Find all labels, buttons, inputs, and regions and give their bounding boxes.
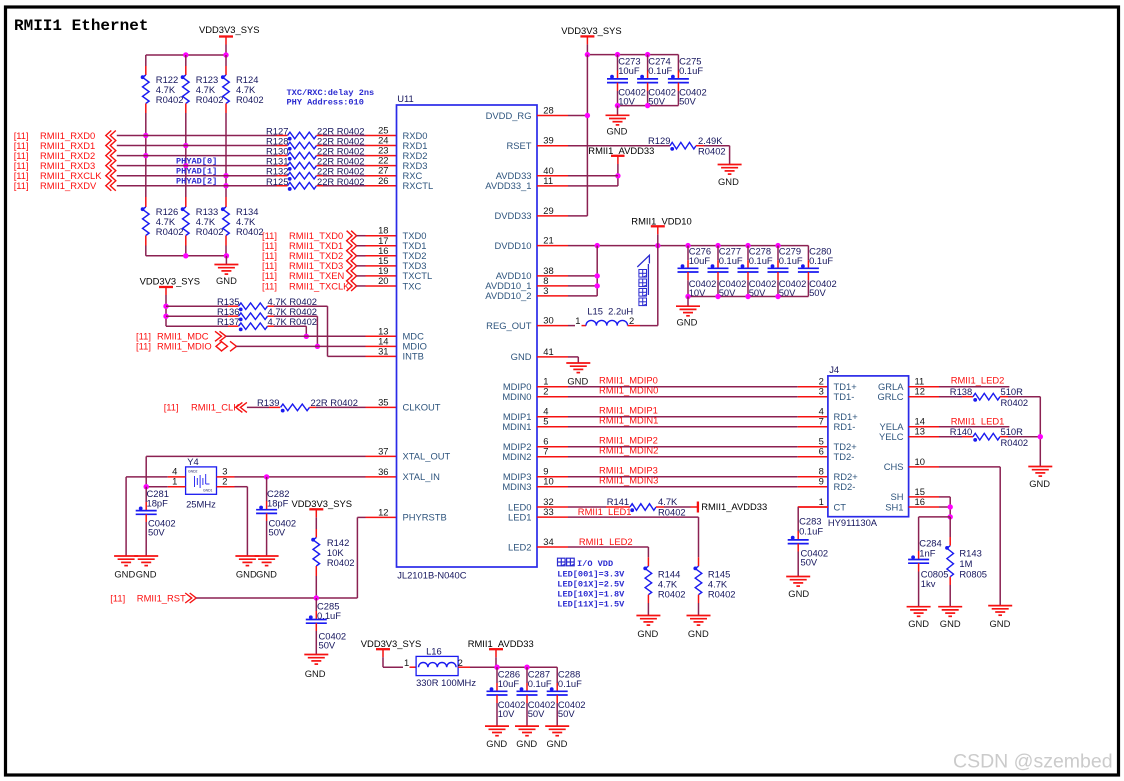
svg-text:MDIN2: MDIN2 — [502, 451, 531, 462]
svg-text:22R R0402: 22R R0402 — [317, 176, 364, 187]
svg-text:GND: GND — [940, 618, 961, 629]
wire LED gnd riser — [1039, 397, 1041, 467]
svg-text:50V: 50V — [319, 640, 336, 651]
ground GND (R129) — [729, 146, 731, 165]
svg-text:GND: GND — [637, 628, 658, 639]
pin 5 J4 stub — [798, 446, 828, 448]
svg-text:2: 2 — [543, 386, 548, 397]
pin 2 Y4 stub — [217, 486, 235, 488]
pin 6 J4 stub — [798, 456, 828, 458]
resistor R135 4.7K — [166, 305, 228, 307]
svg-text:20: 20 — [378, 275, 388, 286]
capacitor C277 0.1uF — [717, 246, 719, 261]
svg-text:AVDD33_1: AVDD33_1 — [485, 180, 531, 191]
svg-text:37: 37 — [378, 445, 388, 456]
inductor L15 2.2uH — [568, 325, 575, 327]
svg-text:330R 100MHz: 330R 100MHz — [416, 677, 476, 688]
svg-text:[11]: [11] — [136, 341, 151, 352]
svg-text:GND: GND — [718, 176, 739, 187]
svg-text:25MHz: 25MHz — [186, 499, 216, 510]
svg-text:INTB: INTB — [403, 351, 424, 362]
svg-text:0.1uF: 0.1uF — [317, 610, 341, 621]
svg-text:GND: GND — [256, 569, 277, 580]
svg-text:3: 3 — [543, 285, 548, 296]
svg-text:R0805: R0805 — [959, 569, 987, 580]
svg-text:MDIN1: MDIN1 — [502, 421, 531, 432]
svg-text:RMII1_VDD10: RMII1_VDD10 — [631, 216, 691, 227]
node DVDD10 junctions — [595, 243, 600, 248]
svg-text:XTAL_OUT: XTAL_OUT — [403, 451, 451, 462]
resistor R127 22R — [277, 135, 288, 137]
capacitor C279 0.1uF — [777, 246, 779, 261]
wire RMII1_RXD0 — [117, 135, 277, 137]
svg-text:RMII1_MDIN1: RMII1_MDIN1 — [599, 415, 658, 426]
ground GND (Y4 pin4) — [114, 555, 138, 557]
svg-text:11: 11 — [543, 175, 553, 186]
svg-text:GND: GND — [607, 126, 628, 137]
ground GND (R145) — [687, 615, 711, 617]
svg-text:LED[01X]=2.5V: LED[01X]=2.5V — [557, 579, 625, 589]
svg-text:[11]: [11] — [14, 180, 29, 191]
pin 13 MDC stub — [366, 335, 397, 337]
pin 26 RXD5 stub — [366, 185, 397, 187]
svg-text:22R R0402: 22R R0402 — [311, 397, 358, 408]
svg-text:PHYAD[1]: PHYAD[1] — [176, 166, 217, 176]
svg-text:VDD3V3_SYS: VDD3V3_SYS — [292, 498, 352, 509]
svg-text:35: 35 — [378, 396, 388, 407]
svg-text:41: 41 — [543, 346, 553, 357]
svg-text:PHYAD[0]: PHYAD[0] — [176, 156, 217, 166]
svg-text:YELC: YELC — [879, 431, 904, 442]
svg-text:RMII1_MDIN3: RMII1_MDIN3 — [599, 475, 658, 486]
port RMII1_MDC arrow — [220, 331, 227, 341]
svg-text:18pF: 18pF — [147, 498, 169, 509]
ground GND (C282) — [255, 555, 279, 557]
svg-text:29: 29 — [543, 205, 553, 216]
ground GND (cap bank) — [617, 106, 619, 116]
capacitor C282 18pF — [266, 477, 268, 501]
wire RMII1_RXD1 — [117, 145, 277, 147]
svg-text:GND: GND — [511, 351, 532, 362]
capacitor C278 0.1uF — [747, 246, 749, 261]
svg-text:1nF: 1nF — [919, 548, 935, 559]
annotation current-direction arrow — [637, 255, 649, 267]
pin 36 XTAL_IN stub — [366, 476, 397, 478]
wire pin40 — [568, 175, 618, 177]
node rail junctions — [183, 52, 188, 57]
ground GND (C287) — [515, 725, 539, 727]
wire DVDD10 rail — [568, 245, 808, 247]
svg-text:7: 7 — [543, 446, 548, 457]
wire R136 to MDIO — [274, 315, 317, 317]
svg-text:LED2: LED2 — [508, 541, 531, 552]
resistor R122 — [145, 55, 147, 66]
wire RMII1_RXD2 — [117, 155, 277, 157]
J4 right pin names/stubs — [877, 376, 939, 513]
svg-text:TXC/RXC:delay 2ns: TXC/RXC:delay 2ns — [287, 88, 375, 98]
svg-text:R125: R125 — [266, 176, 288, 187]
net RMII1_MDIN2 wire — [568, 456, 798, 458]
net RMII1_MDIP0 wire — [568, 386, 798, 388]
svg-text:MDIN3: MDIN3 — [502, 481, 531, 492]
svg-text:10uF: 10uF — [498, 678, 520, 689]
svg-text:DVDD_RG: DVDD_RG — [486, 110, 532, 121]
svg-text:GND: GND — [908, 618, 929, 629]
resistor R144 4.7K — [647, 557, 649, 566]
resistor R134 — [225, 197, 227, 207]
resistor R141 4.7K — [568, 506, 606, 508]
svg-text:CHS: CHS — [884, 461, 904, 472]
node DVDD_RG junction — [585, 113, 590, 118]
svg-text:[11]: [11] — [110, 593, 125, 604]
annotation LED voltage table — [558, 558, 566, 566]
resistor R137 4.7K — [166, 325, 228, 327]
svg-text:VDD3V3_SYS: VDD3V3_SYS — [561, 25, 621, 36]
node VDD-R135/R136 junctions — [163, 304, 168, 309]
resistor R143 1M — [949, 517, 951, 537]
svg-text:R0402: R0402 — [327, 557, 355, 568]
net RMII1_MDIP1 wire — [568, 416, 798, 418]
svg-text:0.1uF: 0.1uF — [528, 678, 552, 689]
pin 27 RXD4 stub — [366, 175, 397, 177]
pin 24 RXD1 stub — [366, 145, 397, 147]
svg-text:39: 39 — [543, 135, 553, 146]
node bottom junctions — [685, 294, 690, 299]
svg-text:TD2-: TD2- — [834, 451, 855, 462]
svg-text:1kv: 1kv — [921, 578, 936, 589]
svg-text:R139: R139 — [257, 397, 279, 408]
wire R135 to INTB — [274, 305, 328, 307]
svg-text:GRLC: GRLC — [877, 391, 903, 402]
svg-text:0.1uF: 0.1uF — [719, 255, 743, 266]
svg-text:R0402: R0402 — [708, 589, 736, 600]
capacitor C284 1nF — [918, 551, 920, 560]
svg-text:L16: L16 — [426, 646, 442, 657]
svg-text:RMII1_LED2: RMII1_LED2 — [579, 536, 633, 547]
wire RMII1_RXD3 — [117, 165, 277, 167]
svg-text:0.1uF: 0.1uF — [749, 255, 773, 266]
wire XTAL_OUT left — [146, 455, 365, 457]
svg-text:GND1: GND1 — [203, 489, 213, 493]
svg-text:2: 2 — [629, 315, 634, 326]
ground GND (CHS) — [988, 605, 1012, 607]
node vdd rail junctions — [585, 52, 590, 57]
svg-text:U11: U11 — [397, 93, 414, 104]
node MDC junction — [304, 334, 309, 339]
wire Y4 pin4 to gnd — [126, 476, 168, 478]
pin 2 J4 stub — [798, 386, 828, 388]
svg-text:10uF: 10uF — [689, 255, 711, 266]
capacitor C274 0.1uF — [647, 55, 649, 71]
svg-text:HY911130A: HY911130A — [828, 517, 878, 528]
svg-text:0.1uF: 0.1uF — [779, 255, 803, 266]
port RMII1_CLK arrow — [236, 402, 243, 412]
svg-text:AVDD10_2: AVDD10_2 — [485, 290, 531, 301]
svg-text:50V: 50V — [809, 287, 826, 298]
svg-text:RMII1_CLK: RMII1_CLK — [191, 402, 240, 413]
svg-text:9: 9 — [819, 476, 824, 487]
svg-text:1: 1 — [819, 496, 824, 507]
svg-text:J4: J4 — [829, 364, 839, 375]
node AVDD10 junctions — [595, 273, 600, 278]
capacitor C276 10uF — [687, 246, 689, 261]
svg-text:GND: GND — [305, 668, 326, 679]
wire vdd column to pin28/29 — [586, 55, 588, 216]
svg-text:[11]: [11] — [262, 280, 277, 291]
node AVDD33 cap junctions — [494, 665, 499, 670]
svg-text:MDIN0: MDIN0 — [502, 391, 531, 402]
pin 25 RXD0 stub — [366, 135, 397, 137]
svg-text:R0402: R0402 — [1001, 437, 1029, 448]
node bottom rail junctions — [183, 253, 188, 258]
pin 18 stub — [357, 235, 366, 237]
resistor R131 22R — [277, 165, 288, 167]
svg-text:VDD3V3_SYS: VDD3V3_SYS — [199, 24, 259, 35]
node R140 junction — [1038, 434, 1043, 439]
node column-bus junctions — [143, 133, 148, 138]
svg-text:13: 13 — [915, 426, 925, 437]
svg-text:TXC: TXC — [403, 280, 422, 291]
svg-text:4.7K: 4.7K — [658, 496, 678, 507]
svg-text:GND: GND — [486, 738, 507, 749]
net RMII1_MDIP3 wire — [568, 476, 798, 478]
svg-text:2: 2 — [458, 657, 463, 668]
inductor L16 330R@100MHz — [383, 666, 403, 668]
node MDIO junction — [315, 344, 320, 349]
svg-text:28: 28 — [543, 105, 553, 116]
svg-text:RMII1 Ethernet: RMII1 Ethernet — [14, 17, 148, 35]
svg-text:TD1-: TD1- — [834, 391, 855, 402]
svg-text:0.1uF: 0.1uF — [799, 526, 823, 537]
svg-text:RXCTL: RXCTL — [403, 180, 434, 191]
svg-text:16: 16 — [915, 496, 925, 507]
ground GND (DVDD10 caps) — [687, 297, 689, 307]
svg-text:R0402: R0402 — [658, 507, 686, 518]
wire Y4 pin1 to C281 — [146, 486, 168, 488]
svg-text:RMII1_RXDV: RMII1_RXDV — [40, 180, 97, 191]
svg-text:RMII1_AVDD33: RMII1_AVDD33 — [468, 638, 534, 649]
resistor R136 4.7K — [166, 315, 228, 317]
svg-text:VDD3V3_SYS: VDD3V3_SYS — [361, 638, 421, 649]
wire REG_OUT riser — [657, 246, 659, 326]
svg-text:18pF: 18pF — [267, 498, 289, 509]
ground GND (C286) — [485, 725, 509, 727]
wire to C284 — [919, 516, 951, 518]
svg-text:3: 3 — [819, 386, 824, 397]
resistor R129 2.49K — [568, 145, 670, 147]
ground GND (Y4 pin2) — [235, 555, 259, 557]
svg-text:[11]: [11] — [164, 402, 179, 413]
ground GND (R144) — [636, 615, 660, 617]
svg-text:GND: GND — [216, 275, 237, 286]
svg-text:LED[10X]=1.8V: LED[10X]=1.8V — [557, 589, 625, 599]
svg-text:21: 21 — [543, 235, 553, 246]
svg-text:1: 1 — [172, 476, 177, 487]
wire pin11 — [568, 185, 618, 187]
resistor R133 — [185, 197, 187, 207]
svg-text:GND: GND — [788, 588, 809, 599]
svg-text:0.1uF: 0.1uF — [679, 65, 703, 76]
wire vdd rail — [587, 54, 678, 56]
ground GND (C281) — [134, 555, 158, 557]
node XTAL_IN / C282 junction — [264, 474, 269, 479]
ground GND (LED resistors) — [1028, 466, 1052, 468]
svg-text:DVDD10: DVDD10 — [495, 240, 532, 251]
crystal Y4 25MHz — [186, 467, 217, 494]
wire RMII1_MDIO — [237, 345, 366, 347]
ground GND (pull-down rail) — [225, 256, 227, 265]
pin 4 J4 stub — [798, 416, 828, 418]
svg-text:R0402: R0402 — [156, 226, 184, 237]
wire AVDD10 branch — [596, 246, 598, 296]
resistor R126 — [145, 197, 147, 207]
svg-text:LED[001]=3.3V: LED[001]=3.3V — [557, 569, 625, 579]
ground GND (pin41) — [568, 356, 578, 358]
svg-text:12: 12 — [915, 386, 925, 397]
node C281 junction — [144, 484, 149, 489]
svg-text:REG_OUT: REG_OUT — [486, 320, 532, 331]
svg-text:1M: 1M — [959, 558, 972, 569]
svg-text:RMII1_AVDD33: RMII1_AVDD33 — [588, 145, 654, 156]
capacitor C285 0.1uF — [315, 598, 317, 611]
svg-text:510R: 510R — [1001, 426, 1024, 437]
U11 right pin stubs and numbers — [537, 105, 568, 548]
svg-text:RSET: RSET — [506, 140, 531, 151]
capacitor C288 0.1uF — [556, 667, 558, 683]
svg-text:R0402: R0402 — [236, 226, 264, 237]
svg-text:RMII1_TXCLK: RMII1_TXCLK — [289, 280, 350, 291]
pin 17 stub — [357, 245, 366, 247]
svg-text:R0402: R0402 — [658, 589, 686, 600]
node SH junction — [948, 504, 953, 509]
wire Y4 pin2 to gnd — [235, 486, 248, 488]
svg-text:50V: 50V — [558, 708, 575, 719]
svg-text:I/O VDD: I/O VDD — [577, 559, 613, 569]
svg-text:RMII1_RST: RMII1_RST — [137, 593, 186, 604]
pin 7 J4 stub — [798, 426, 828, 428]
resistor R140 510R — [939, 436, 962, 438]
resistor R124 — [225, 55, 227, 66]
pin 8 J4 stub — [798, 476, 828, 478]
pin 1 Y4 stub — [168, 486, 186, 488]
svg-text:10: 10 — [543, 476, 553, 487]
ground GND (R143) — [938, 606, 962, 608]
pin 1 CT stub — [798, 506, 828, 508]
net RMII1_MDIN1 wire — [568, 426, 798, 428]
svg-text:GND: GND — [688, 628, 709, 639]
net RMII1_MDIP2 wire — [568, 446, 798, 448]
wire GRLA — [939, 386, 1009, 388]
svg-text:RD2-: RD2- — [834, 481, 856, 492]
svg-text:RMII1_MDIO: RMII1_MDIO — [157, 341, 212, 352]
svg-text:10: 10 — [915, 456, 925, 467]
resistor R138 510R — [939, 396, 962, 398]
svg-text:2: 2 — [222, 476, 227, 487]
svg-text:CSDN @szembed: CSDN @szembed — [953, 751, 1113, 773]
resistor R132 22R — [277, 175, 288, 177]
wire R124 column down — [225, 113, 227, 197]
svg-text:1: 1 — [404, 657, 409, 668]
svg-text:GND: GND — [990, 618, 1011, 629]
svg-text:LED1: LED1 — [508, 511, 531, 522]
svg-text:31: 31 — [378, 345, 388, 356]
svg-text:0.1uF: 0.1uF — [809, 255, 833, 266]
svg-text:RMII1_LED1: RMII1_LED1 — [951, 416, 1005, 427]
svg-text:GND2: GND2 — [188, 470, 198, 474]
svg-text:510R: 510R — [1001, 386, 1024, 397]
wire YELA — [939, 426, 1009, 428]
svg-text:RMII1_LED2: RMII1_LED2 — [951, 375, 1005, 386]
wire XTAL_IN — [235, 476, 366, 478]
net RMII1_MDIN0 wire — [568, 396, 798, 398]
svg-text:1: 1 — [575, 315, 580, 326]
node C285 junction — [314, 595, 319, 600]
svg-text:0.1uF: 0.1uF — [648, 65, 672, 76]
resistor R125 22R — [277, 185, 288, 187]
power RMII1_AVDD33 (led0) — [697, 502, 699, 513]
pin 22 RXD3 stub — [366, 165, 397, 167]
svg-text:GND: GND — [677, 317, 698, 328]
wire RMII1_RST — [196, 597, 357, 599]
wire SH1 — [939, 506, 950, 508]
svg-text:CLKOUT: CLKOUT — [403, 402, 441, 413]
svg-text:RMII1_AVDD33: RMII1_AVDD33 — [701, 501, 767, 512]
capacitor C280 0.1uF — [807, 246, 809, 261]
resistor R142 10K — [313, 538, 320, 567]
capacitor C281 18pF — [145, 487, 147, 502]
wire LED1 to R145 — [568, 516, 699, 518]
pin 20 stub — [357, 285, 366, 287]
ground GND (C283) — [786, 576, 810, 578]
pin 15 stub — [357, 265, 366, 267]
ground GND (C285) — [304, 654, 328, 656]
node bottom rail junctions — [615, 103, 620, 108]
resistor R130 22R — [277, 155, 288, 157]
svg-text:50V: 50V — [679, 96, 696, 107]
wire LED2 to R144 — [568, 546, 648, 548]
connector J4 HY911130A body — [828, 376, 909, 517]
ground GND (C284) — [907, 606, 931, 608]
wire cap bank bottom rail — [618, 105, 679, 107]
svg-text:PHYRSTB: PHYRSTB — [403, 512, 447, 523]
pin 16 stub — [357, 255, 366, 257]
svg-text:SH1: SH1 — [885, 501, 903, 512]
svg-text:PHYAD[2]: PHYAD[2] — [176, 177, 217, 187]
svg-text:CT: CT — [834, 501, 847, 512]
svg-text:5: 5 — [543, 416, 548, 427]
svg-text:12: 12 — [378, 506, 388, 517]
svg-text:26: 26 — [378, 175, 388, 186]
U11 right pin names — [485, 110, 531, 553]
port RMII1_RST arrow — [190, 593, 197, 603]
port chain RXD (left chevrons) — [106, 130, 112, 190]
ground GND (C288) — [545, 725, 569, 727]
svg-text:PHY Address:010: PHY Address:010 — [287, 98, 364, 108]
pin 35 CLKOUT stub — [366, 406, 397, 408]
svg-text:XTAL_IN: XTAL_IN — [403, 471, 440, 482]
capacitor C287 0.1uF — [526, 667, 528, 683]
net RMII1_MDIN3 wire — [568, 486, 798, 488]
pin 12 PHYRSTB stub — [366, 516, 397, 518]
wire RMII1_MDC — [226, 335, 366, 337]
pin 14 MDIO stub — [366, 345, 397, 347]
svg-text:GND: GND — [567, 376, 588, 387]
svg-text:50V: 50V — [269, 527, 286, 538]
wire R123 column down — [185, 113, 187, 197]
J4 left pin names — [834, 381, 859, 512]
wire RMII1_RXCLK — [117, 175, 277, 177]
capacitor C286 10uF — [496, 667, 498, 683]
